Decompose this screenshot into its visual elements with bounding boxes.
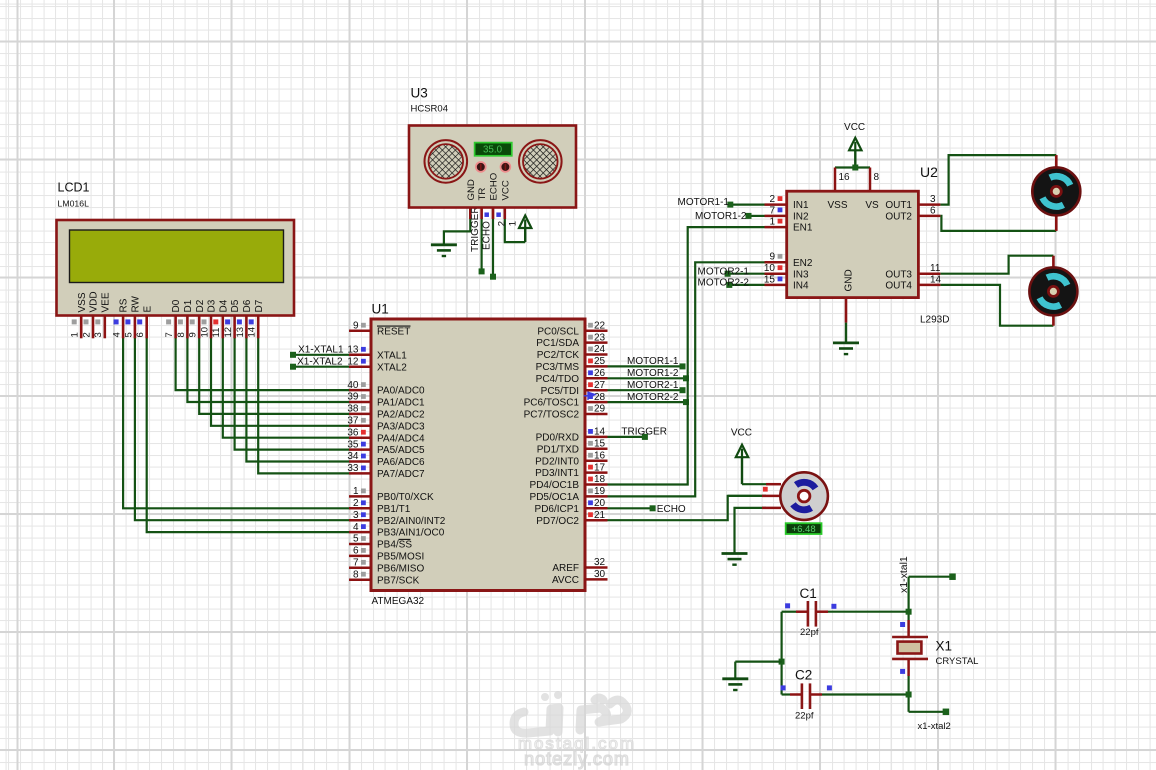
svg-text:TRIGGER: TRIGGER [621,427,667,438]
svg-text:notezly.com: notezly.com [524,749,630,769]
svg-text:PC7/TOSC2: PC7/TOSC2 [524,410,580,421]
svg-text:PC2/TCK: PC2/TCK [537,350,580,361]
svg-text:X1-XTAL1: X1-XTAL1 [298,344,344,355]
svg-text:23: 23 [594,332,606,343]
svg-text:19: 19 [594,486,606,497]
svg-text:ECHO: ECHO [489,173,500,201]
svg-text:MOTOR2-1: MOTOR2-1 [698,266,750,277]
svg-text:U2: U2 [920,164,938,180]
svg-text:7: 7 [769,205,775,216]
svg-text:D3: D3 [207,299,218,312]
svg-text:PD7/OC2: PD7/OC2 [536,516,579,527]
svg-text:MOTOR1-1: MOTOR1-1 [678,197,730,208]
svg-text:LM016L: LM016L [58,199,90,209]
svg-text:CRYSTAL: CRYSTAL [936,656,979,667]
svg-text:PC3/TMS: PC3/TMS [536,362,580,373]
svg-text:12: 12 [347,356,359,367]
svg-text:E: E [142,306,153,313]
svg-text:VSS: VSS [77,292,88,312]
svg-text:TRIGGER: TRIGGER [470,206,481,252]
svg-text:3: 3 [353,510,359,521]
svg-text:VCC: VCC [500,180,511,200]
svg-text:9: 9 [769,252,775,263]
svg-text:IN1: IN1 [793,200,809,211]
svg-text:x1-xtal2: x1-xtal2 [918,721,951,732]
svg-text:13: 13 [235,327,246,338]
svg-text:D7: D7 [254,299,265,312]
svg-text:30: 30 [594,569,606,580]
svg-text:9: 9 [353,320,359,331]
svg-text:13: 13 [347,345,359,356]
svg-text:IN2: IN2 [793,212,809,223]
svg-text:17: 17 [594,462,606,473]
svg-text:28: 28 [594,392,606,403]
svg-text:10: 10 [199,327,210,338]
svg-text:20: 20 [594,498,606,509]
svg-text:PB3/AIN1/OC0: PB3/AIN1/OC0 [377,528,445,539]
svg-text:PB5/MOSI: PB5/MOSI [377,552,424,563]
svg-text:VDD: VDD [89,291,100,312]
svg-text:22pf: 22pf [795,710,814,721]
svg-text:VS: VS [865,200,879,211]
svg-text:D5: D5 [230,299,241,312]
svg-text:PA7/ADC7: PA7/ADC7 [377,469,425,480]
svg-text:L293D: L293D [920,315,949,326]
svg-text:PA1/ADC1: PA1/ADC1 [377,398,425,409]
svg-text:GND: GND [843,269,854,291]
svg-text:5: 5 [353,534,359,545]
svg-text:4: 4 [353,522,359,533]
svg-text:PD4/OC1B: PD4/OC1B [530,480,580,491]
svg-text:PA4/ADC4: PA4/ADC4 [377,433,425,444]
svg-text:29: 29 [594,404,606,415]
svg-text:26: 26 [594,368,606,379]
svg-text:14: 14 [247,327,258,338]
svg-text:C2: C2 [795,668,812,683]
svg-text:PC0/SCL: PC0/SCL [537,326,579,337]
svg-text:OUT1: OUT1 [885,200,912,211]
svg-text:PC5/TDI: PC5/TDI [541,386,579,397]
svg-text:x1-xtal1: x1-xtal1 [898,556,910,593]
svg-text:35: 35 [347,439,359,450]
svg-text:PB7/SCK: PB7/SCK [377,575,420,586]
svg-text:5: 5 [123,332,134,337]
svg-text:PA5/ADC5: PA5/ADC5 [377,445,425,456]
svg-text:OUT2: OUT2 [885,212,912,223]
svg-text:6: 6 [353,546,359,557]
svg-text:PD3/INT1: PD3/INT1 [535,468,579,479]
svg-text:6: 6 [135,332,146,337]
svg-text:VCC: VCC [844,122,865,133]
svg-text:7: 7 [164,332,175,337]
svg-text:PA6/ADC6: PA6/ADC6 [377,457,425,468]
svg-text:40: 40 [347,380,359,391]
svg-text:18: 18 [594,474,606,485]
svg-text:D1: D1 [183,299,194,312]
svg-text:7: 7 [353,558,359,569]
svg-text:+6.48: +6.48 [792,524,816,535]
svg-text:X1: X1 [936,639,953,654]
svg-text:EN2: EN2 [793,258,813,269]
svg-text:22: 22 [594,320,606,331]
svg-text:X1-XTAL2: X1-XTAL2 [297,356,343,367]
svg-text:2: 2 [769,194,775,205]
svg-text:D2: D2 [195,299,206,312]
svg-text:15: 15 [594,439,606,450]
svg-text:16: 16 [594,450,606,461]
svg-text:4: 4 [112,332,123,337]
svg-text:EN1: EN1 [793,223,813,234]
svg-text:HCSR04: HCSR04 [411,104,449,115]
svg-text:U1: U1 [372,302,389,317]
svg-text:MOTOR1-2: MOTOR1-2 [627,368,679,379]
svg-text:1: 1 [508,221,519,226]
svg-text:MOTOR2-2: MOTOR2-2 [698,278,750,289]
svg-text:XTAL1: XTAL1 [377,350,407,361]
svg-text:IN4: IN4 [793,281,809,292]
svg-text:PA0/ADC0: PA0/ADC0 [377,386,425,397]
svg-text:PA3/ADC3: PA3/ADC3 [377,421,425,432]
svg-text:TR: TR [477,188,488,201]
svg-text:3: 3 [93,332,104,337]
svg-text:2: 2 [496,221,507,226]
svg-text:XTAL2: XTAL2 [377,362,407,373]
svg-text:RESET: RESET [377,326,410,337]
svg-text:VSS: VSS [827,200,847,211]
svg-text:14: 14 [594,427,606,438]
svg-text:32: 32 [594,557,606,568]
svg-text:PB0/T0/XCK: PB0/T0/XCK [377,492,434,503]
svg-text:LCD1: LCD1 [58,181,90,195]
svg-text:ECHO: ECHO [657,504,686,515]
svg-text:D4: D4 [218,299,229,312]
svg-text:PB6/MISO: PB6/MISO [377,563,424,574]
svg-text:PD0/RXD: PD0/RXD [536,433,579,444]
svg-text:ECHO: ECHO [482,221,493,250]
svg-text:27: 27 [594,380,606,391]
svg-text:RS: RS [119,298,130,312]
svg-text:37: 37 [347,416,359,427]
svg-text:8: 8 [874,172,880,183]
svg-text:PC6/TOSC1: PC6/TOSC1 [524,398,580,409]
svg-text:21: 21 [594,510,606,521]
svg-text:OUT3: OUT3 [885,269,912,280]
svg-text:MOTOR1-2: MOTOR1-2 [695,211,747,222]
svg-text:VCC: VCC [731,427,752,438]
svg-text:PB1/T1: PB1/T1 [377,504,411,515]
svg-text:GND: GND [466,179,477,200]
svg-text:34: 34 [347,451,359,462]
svg-text:12: 12 [223,327,234,338]
svg-text:D0: D0 [171,299,182,312]
svg-text:AVCC: AVCC [552,575,579,586]
svg-text:PD6/ICP1: PD6/ICP1 [535,504,580,515]
svg-text:2: 2 [81,332,92,337]
svg-text:15: 15 [764,274,776,285]
svg-text:PC4/TDO: PC4/TDO [536,374,580,385]
svg-text:6: 6 [930,205,936,216]
svg-text:OUT4: OUT4 [885,281,912,292]
svg-text:14: 14 [930,274,942,285]
svg-text:ATMEGA32: ATMEGA32 [372,596,425,607]
svg-text:38: 38 [347,404,359,415]
svg-text:PD2/INT0: PD2/INT0 [535,456,579,467]
svg-text:11: 11 [211,328,222,338]
svg-text:24: 24 [594,344,606,355]
svg-text:25: 25 [594,356,606,367]
svg-text:PD1/TXD: PD1/TXD [537,444,579,455]
svg-text:9: 9 [188,332,199,337]
svg-text:MOTOR1-1: MOTOR1-1 [627,356,679,367]
svg-text:22pf: 22pf [800,627,819,638]
svg-text:1: 1 [70,332,81,337]
svg-text:33: 33 [347,463,359,474]
svg-text:D6: D6 [242,299,253,312]
svg-text:39: 39 [347,392,359,403]
svg-text:1: 1 [769,217,775,228]
svg-text:MOTOR2-1: MOTOR2-1 [627,380,679,391]
svg-text:36: 36 [347,427,359,438]
svg-text:VEE: VEE [100,292,111,312]
svg-text:PC1/SDA: PC1/SDA [536,338,579,349]
svg-text:35.0: 35.0 [483,145,503,156]
svg-text:2: 2 [353,498,359,509]
svg-text:1: 1 [353,486,359,497]
svg-text:PB4/SS: PB4/SS [377,540,412,551]
svg-text:C1: C1 [800,586,817,601]
svg-text:AREF: AREF [552,563,579,574]
svg-text:10: 10 [764,263,776,274]
svg-text:MOTOR2-2: MOTOR2-2 [627,392,679,403]
svg-text:8: 8 [353,569,359,580]
svg-text:PA2/ADC2: PA2/ADC2 [377,410,425,421]
svg-text:16: 16 [839,172,851,183]
svg-text:11: 11 [930,263,941,274]
svg-text:RW: RW [131,295,142,312]
svg-text:U3: U3 [411,86,428,101]
svg-text:3: 3 [930,194,936,205]
svg-text:PB2/AIN0/INT2: PB2/AIN0/INT2 [377,516,446,527]
svg-text:IN3: IN3 [793,269,809,280]
svg-text:8: 8 [176,332,187,337]
svg-text:PD5/OC1A: PD5/OC1A [530,492,580,503]
